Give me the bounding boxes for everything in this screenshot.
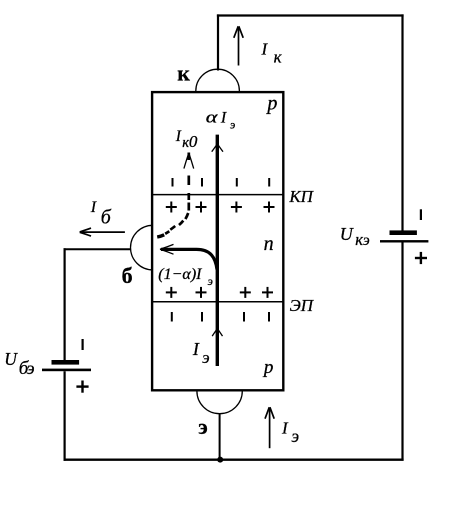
label U_be (base-emitter source) (4, 349, 34, 379)
svg-text:I: I (175, 128, 182, 145)
svg-text:э: э (27, 358, 35, 378)
svg-text:0: 0 (189, 132, 198, 151)
dashed reverse current I_k0 curve (explicit dashes) (157, 153, 189, 238)
svg-text:p: p (262, 357, 274, 378)
svg-text:э: э (291, 426, 299, 446)
label alpha-I_e (206, 108, 235, 131)
junction dot on bottom wire (217, 457, 223, 463)
label U_ke (collector-emitter source) (340, 224, 370, 249)
battery U_ke positive plate (long thin bar) (380, 240, 428, 242)
battery U_be positive plate (long thin bar) (42, 369, 91, 372)
arrowhead of I_e (open barbs on thick line, lower) (212, 329, 222, 336)
current arrow I_e (outside, bottom right) (265, 407, 274, 448)
svg-text:I: I (90, 199, 97, 216)
minus charges above collector junction (173, 178, 270, 187)
label I_k0 (175, 128, 198, 151)
wire bottom (emitter return) (64, 459, 404, 461)
transistor body rectangle (152, 92, 283, 390)
svg-text:к: к (274, 48, 283, 67)
svg-text:I: I (192, 339, 200, 359)
collector contact hump (top) (196, 69, 240, 91)
minus charges below emitter junction (172, 312, 269, 322)
svg-text:э: э (202, 348, 210, 367)
wire left lower (battery U_be down to bottom wire) (63, 371, 65, 461)
svg-text:U: U (4, 349, 18, 369)
arrowhead of I_k0 (open barbs, up) (184, 155, 194, 169)
svg-text:э: э (230, 117, 235, 131)
battery U_be plus sign (76, 381, 88, 393)
svg-text:(1−α)I: (1−α)I (158, 266, 202, 283)
wire emitter vertical (emitter hump down to bottom wire) (219, 414, 221, 460)
base contact hump (left) (131, 225, 153, 270)
svg-text:I: I (220, 110, 227, 127)
svg-text:б: б (122, 263, 133, 288)
current arrow I_b (left pointing) (80, 228, 125, 236)
emitter junction line EP (153, 301, 284, 303)
svg-text:к: к (177, 60, 190, 85)
label (1-alpha)I_e (158, 266, 213, 288)
wire right upper (top corner down to battery U_ke) (401, 14, 403, 230)
svg-text:p: p (265, 93, 277, 115)
plus charges above emitter junction (166, 287, 273, 298)
wire top (collector to battery loop) (217, 14, 404, 16)
label I_e (inside, emitter current) (192, 339, 210, 367)
thick branch current (1-alpha)I_e curving to base (161, 249, 217, 269)
svg-text:э: э (208, 274, 213, 288)
label I_k (top current) (261, 40, 283, 67)
battery U_ke plus sign (415, 252, 427, 264)
svg-text:э: э (363, 232, 370, 249)
svg-text:КП: КП (288, 187, 314, 206)
emitter contact hump (bottom) (197, 391, 242, 414)
wire collector vertical (top wire down to collector hump) (217, 14, 219, 70)
svg-text:U: U (340, 224, 354, 244)
svg-text:n: n (264, 233, 274, 255)
thick current line alpha-I_e / I_e through transistor (216, 135, 219, 366)
battery U_be negative plate (short thick bar) (52, 360, 80, 365)
label I_e (bottom right current) (281, 418, 299, 446)
svg-text:б: б (101, 207, 112, 229)
label I_b (90, 199, 112, 229)
current arrow I_k (outside, top) (234, 26, 243, 65)
wire base horizontal (terminal b to left wire) (64, 248, 132, 250)
collector junction line KP (153, 194, 284, 196)
battery U_ke minus tick (420, 209, 422, 220)
plus charges below collector junction (166, 202, 275, 213)
svg-text:э: э (198, 414, 208, 439)
arrowhead of (1-alpha)I_e (left pointing) (160, 244, 174, 254)
svg-text:α: α (206, 108, 218, 127)
arrowhead of alpha-I_e (open barbs on thick line, upper) (212, 145, 223, 152)
battery U_ke negative plate (short thick bar) (390, 230, 417, 235)
svg-text:I: I (261, 40, 269, 59)
svg-text:I: I (281, 418, 289, 437)
wire left upper (base wire corner down to battery U_be) (63, 248, 65, 360)
wire right lower (battery U_ke down to bottom corner) (401, 242, 403, 460)
battery U_be minus tick (81, 339, 83, 350)
svg-text:ЭП: ЭП (290, 296, 315, 315)
